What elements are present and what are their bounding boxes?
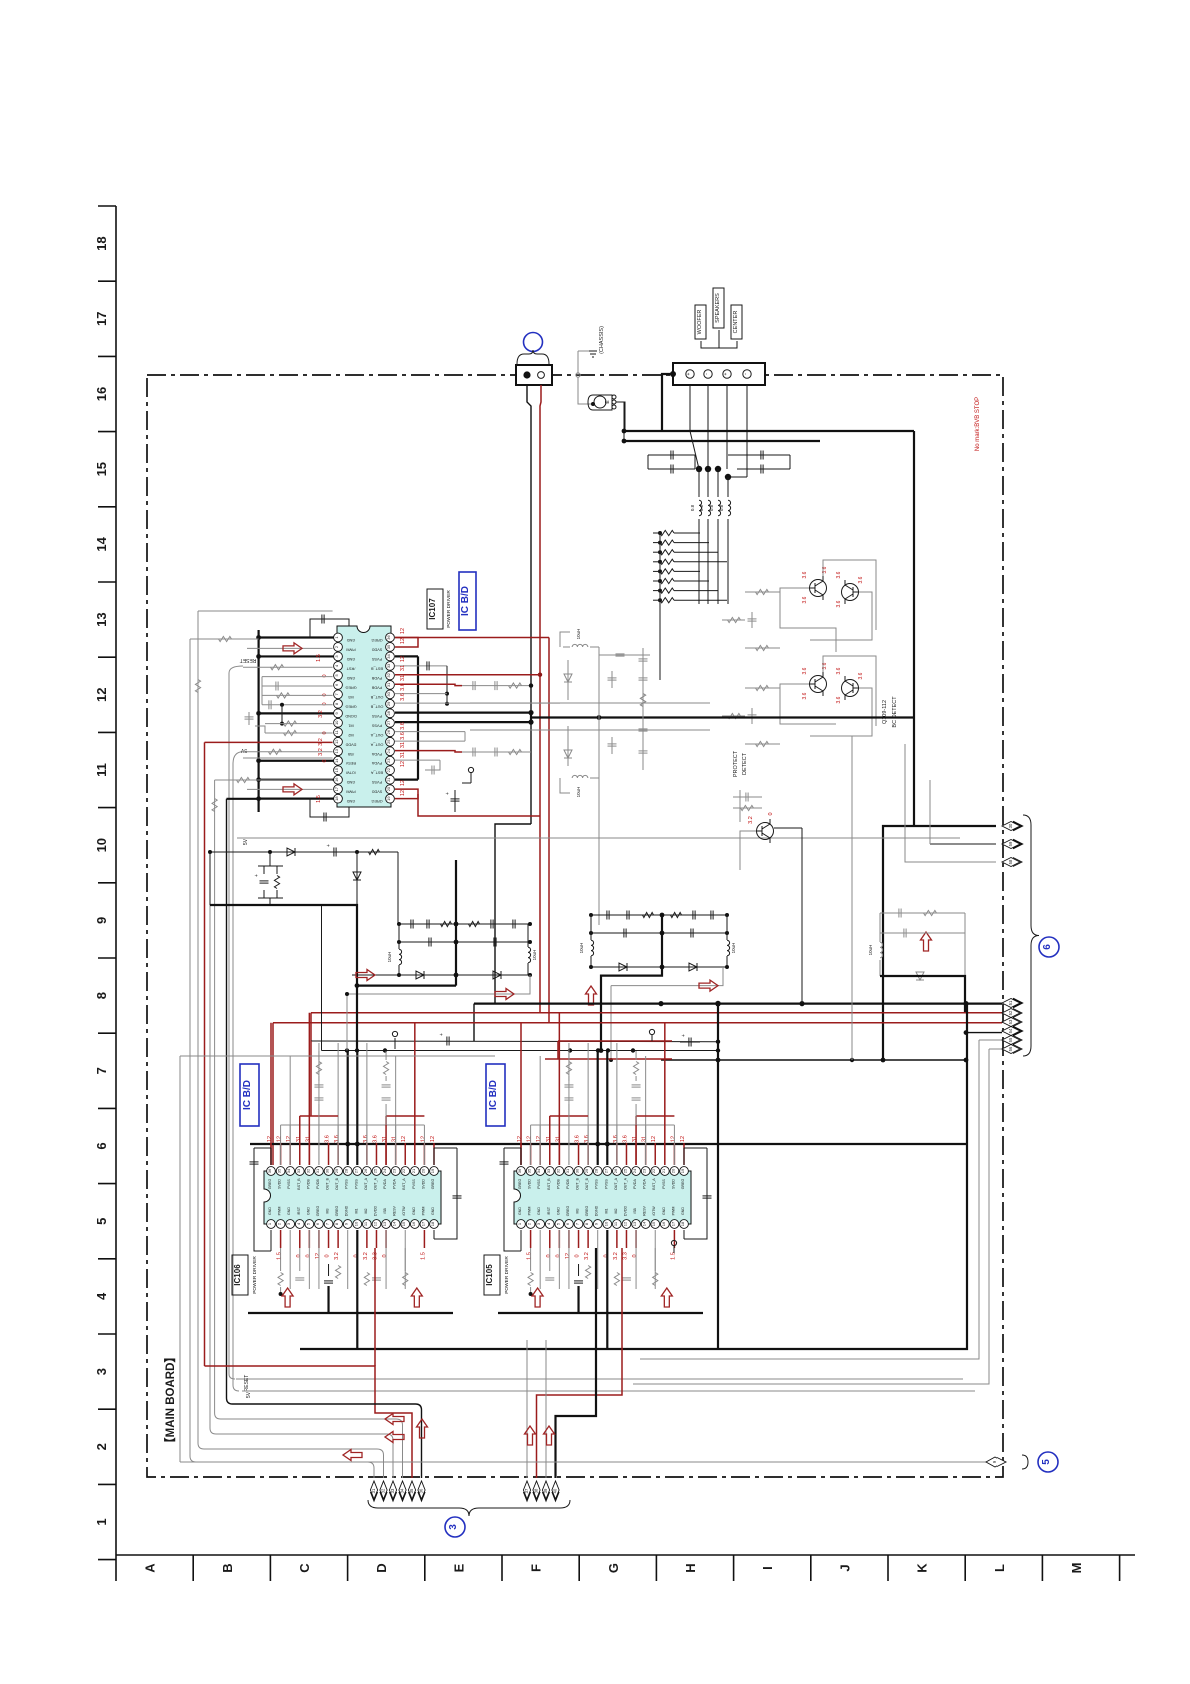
inductor network right of IC107 lower: [572, 775, 588, 778]
wire transistor block net 1: [780, 588, 836, 652]
IC107 right red wires pins 36 35: [395, 638, 418, 648]
red route IC106 to chevron35: [205, 1366, 413, 1478]
svg-text:10: 10: [353, 1221, 358, 1226]
svg-text:B: B: [220, 1563, 235, 1572]
wire pin16 res: [215, 779, 333, 781]
IC105 red top stubs: [520, 1143, 522, 1165]
svg-text:29: 29: [584, 1168, 589, 1173]
wire thick connector-left down: [662, 374, 673, 431]
IC107 label IC B/D blue: [459, 572, 476, 630]
circled 5: [1038, 1452, 1058, 1472]
svg-text:BST_A: BST_A: [402, 1178, 406, 1190]
svg-text:32: 32: [555, 1168, 560, 1173]
svg-text:1.5: 1.5: [420, 1252, 426, 1260]
svg-text:DGND: DGND: [345, 714, 356, 718]
svg-text:3.6: 3.6: [334, 1135, 340, 1143]
svg-text:36: 36: [386, 635, 391, 640]
svg-text:GND: GND: [347, 638, 356, 642]
svg-text:18: 18: [430, 1221, 435, 1226]
svg-text:0: 0: [632, 1254, 638, 1257]
svg-text:12: 12: [400, 638, 406, 644]
left gray verticals edge: [179, 1056, 181, 1462]
svg-text:59: 59: [1008, 841, 1013, 846]
svg-text:1.5: 1.5: [316, 654, 322, 662]
svg-text:PVSS: PVSS: [371, 714, 382, 718]
svg-text:30: 30: [325, 1168, 330, 1173]
wire red from connector pin: [540, 385, 541, 1013]
svg-text:24: 24: [632, 1168, 637, 1173]
wire thick pin34 corner: [395, 655, 418, 657]
wire column continuations IC106: [356, 986, 358, 1051]
svg-text:3.6: 3.6: [372, 1135, 378, 1143]
svg-text:3.2: 3.2: [613, 1252, 619, 1260]
svg-text:29: 29: [386, 701, 391, 706]
svg-text:13: 13: [632, 1221, 637, 1226]
svg-text:3.6: 3.6: [836, 600, 842, 607]
testpoint mid: [651, 1035, 653, 1041]
svg-text:14: 14: [334, 758, 339, 763]
svg-text:12: 12: [286, 1136, 292, 1142]
connector pins 31-36: [370, 1492, 377, 1501]
svg-text:DVDD: DVDD: [373, 1206, 377, 1217]
wire riser x321 from above: [321, 906, 323, 1051]
svg-text:55: 55: [1008, 1037, 1013, 1042]
svg-text:30: 30: [575, 1168, 580, 1173]
svg-text:24: 24: [382, 1168, 387, 1173]
brace under connector: [517, 350, 549, 364]
svg-text:H: H: [683, 1563, 698, 1572]
second block caps right: [880, 912, 965, 914]
IC106 thick verticals: [327, 1286, 329, 1313]
svg-text:31: 31: [386, 682, 391, 687]
svg-text:56: 56: [1008, 1046, 1013, 1051]
svg-text:10uH: 10uH: [868, 945, 873, 956]
wire pin10 11 network: [265, 723, 333, 725]
svg-text:18: 18: [94, 236, 109, 250]
svg-text:3.2: 3.2: [584, 1252, 590, 1260]
svg-text:31: 31: [392, 1136, 398, 1142]
svg-text:GREG: GREG: [335, 1206, 339, 1217]
IC107 gnd bus left: [258, 630, 260, 812]
svg-text:12: 12: [536, 1136, 542, 1142]
testpoint IC105 right: [673, 1246, 675, 1253]
svg-text:15: 15: [651, 1221, 656, 1226]
svg-text:DVDD: DVDD: [623, 1206, 627, 1217]
wire gray verticals right box: [640, 1040, 979, 1359]
label WOOFER: [695, 305, 706, 339]
mid network right caps row A: [591, 914, 727, 916]
svg-text:24: 24: [386, 748, 391, 753]
wire thick right step: [880, 976, 965, 1013]
svg-text:3.6: 3.6: [858, 576, 864, 583]
svg-text:+: +: [686, 372, 692, 375]
svg-text:0: 0: [382, 1254, 388, 1257]
chassis ground symbol: [577, 351, 579, 375]
IC105 red risers: [520, 1023, 522, 1165]
IC107 pins right 19-36: [386, 633, 395, 642]
svg-text:OUT_A: OUT_A: [373, 1177, 377, 1190]
IC105 label IC B/D blue: [486, 1064, 505, 1126]
svg-text:3.6: 3.6: [802, 596, 808, 603]
wire pins 30 29 gray: [395, 693, 447, 695]
svg-text:3.6: 3.6: [802, 692, 808, 699]
circled 3: [445, 1517, 465, 1537]
svg-text:12: 12: [315, 1253, 321, 1259]
IC106 power driver IC body: [264, 1171, 441, 1224]
svg-text:31: 31: [371, 1488, 376, 1493]
svg-text:OUT_B: OUT_B: [576, 1177, 580, 1190]
svg-text:/SB: /SB: [383, 1208, 387, 1214]
wire coils down: [698, 519, 700, 604]
svg-text:No mark:BVB STOP: No mark:BVB STOP: [975, 397, 981, 451]
svg-text:35: 35: [527, 1168, 532, 1173]
IC106 red top stubs: [270, 1143, 272, 1165]
svg-text:BST_B: BST_B: [297, 1178, 301, 1190]
connector pins right bottom: [1013, 999, 1022, 1008]
wire thick rail y1003: [474, 1002, 1002, 1004]
svg-text:PVDA: PVDA: [383, 1179, 387, 1189]
svg-text:PWM: PWM: [346, 647, 355, 651]
red verticals to bottom rails: [548, 638, 550, 1023]
svg-text:0.8: 0.8: [719, 504, 724, 511]
svg-text:0: 0: [555, 1254, 561, 1257]
IC106 bus tie vertical: [356, 1313, 358, 1349]
wire thick left step: [210, 905, 456, 986]
svg-text:31: 31: [296, 1136, 302, 1142]
connector pins right top: [1013, 822, 1022, 831]
svg-text:12: 12: [372, 1221, 377, 1226]
svg-text:RESV: RESV: [393, 1206, 397, 1216]
svg-text:0: 0: [546, 1254, 552, 1257]
svg-text:14: 14: [392, 1221, 397, 1226]
svg-text:0.8: 0.8: [709, 504, 714, 511]
svg-text:GREG: GREG: [431, 1179, 435, 1190]
svg-text:BC DETECT: BC DETECT: [892, 696, 898, 728]
svg-text:15: 15: [401, 1221, 406, 1226]
svg-text:3.6: 3.6: [622, 1135, 628, 1143]
svg-text:21: 21: [661, 1168, 666, 1173]
IC107 power driver IC body: [337, 626, 391, 807]
svg-text:22: 22: [651, 1168, 656, 1173]
svg-text:GND: GND: [347, 657, 356, 661]
svg-text:PVDA: PVDA: [371, 752, 382, 756]
svg-text:M1: M1: [604, 1209, 608, 1214]
svg-text:GREG: GREG: [371, 799, 382, 803]
svg-text:PVDB: PVDB: [566, 1179, 570, 1189]
wire thick bus horizontals: [624, 430, 914, 432]
svg-text:5V: 5V: [246, 1391, 252, 1398]
svg-text:34: 34: [536, 1168, 541, 1173]
svg-text:3.6: 3.6: [802, 571, 808, 578]
IC106 bottom bus: [248, 1312, 453, 1314]
svg-text:GND: GND: [681, 1207, 685, 1215]
svg-text:10: 10: [94, 838, 109, 852]
svg-text:0: 0: [305, 1254, 311, 1257]
svg-text:POWER DRIVER: POWER DRIVER: [252, 1256, 258, 1294]
svg-text:3.6: 3.6: [400, 722, 406, 730]
svg-text:13: 13: [94, 612, 109, 626]
mid network right caps row B: [591, 932, 727, 934]
label SPEAKERS: [713, 288, 724, 328]
svg-text:12: 12: [400, 780, 406, 786]
mid network left diode row: [352, 974, 530, 976]
black route IC105 to chevron40: [556, 1248, 597, 1478]
wire q protect: [774, 827, 802, 829]
svg-text:PVDB: PVDB: [556, 1179, 560, 1189]
svg-text:DGND: DGND: [345, 1205, 349, 1216]
svg-text:28: 28: [344, 1168, 349, 1173]
svg-text:DETECT: DETECT: [742, 752, 748, 775]
svg-text:RESV: RESV: [643, 1206, 647, 1216]
svg-text:PVDA: PVDA: [371, 761, 382, 765]
svg-text:3.2: 3.2: [334, 1252, 340, 1260]
svg-text:L: L: [992, 1564, 1007, 1572]
svg-text:39: 39: [543, 1488, 548, 1493]
main board outline dash-dot border: [147, 375, 1003, 1477]
svg-text:3.2: 3.2: [318, 710, 324, 718]
svg-text:GND: GND: [268, 1207, 272, 1215]
IC105 bus tie vertical: [606, 1313, 608, 1349]
svg-text:12: 12: [400, 761, 406, 767]
wire rail 1003 left corner: [473, 1004, 475, 1041]
svg-text:3.6: 3.6: [584, 1135, 590, 1143]
svg-text:M1: M1: [348, 723, 353, 727]
wire pin32 red to rail: [395, 674, 540, 676]
brace bottom connector: [368, 1500, 570, 1516]
svg-text:GREG: GREG: [681, 1179, 685, 1190]
mid network left caps row A: [399, 923, 530, 925]
svg-text:3.2: 3.2: [748, 816, 754, 824]
svg-text:12: 12: [565, 1253, 571, 1259]
svg-text:GND: GND: [412, 1207, 416, 1215]
svg-text:20: 20: [420, 1168, 425, 1173]
wire red rail y1012: [311, 1012, 1002, 1014]
IC106 bottom components: [278, 1273, 283, 1286]
svg-text:PWM: PWM: [421, 1207, 425, 1216]
electrolytic cap mid: [680, 1041, 700, 1043]
svg-text:SVDD: SVDD: [671, 1179, 675, 1189]
IC106 bypass right: [434, 1156, 457, 1239]
svg-text:GND: GND: [556, 1207, 560, 1215]
ruler bottom ticks: [115, 1555, 117, 1581]
svg-text:0.8: 0.8: [699, 504, 704, 511]
svg-text:PVSS: PVSS: [354, 1179, 358, 1189]
svg-text:/OTW: /OTW: [652, 1206, 656, 1216]
svg-text:OUT_B: OUT_B: [370, 704, 383, 708]
svg-text:26: 26: [363, 1168, 368, 1173]
svg-text:4: 4: [94, 1292, 109, 1300]
svg-text:16: 16: [411, 1221, 416, 1226]
svg-text:25: 25: [622, 1168, 627, 1173]
IC106 label box: [232, 1255, 248, 1295]
svg-text:3.6: 3.6: [325, 1135, 331, 1143]
arrows red mid: [356, 970, 375, 981]
svg-text:IC B/D: IC B/D: [460, 586, 471, 616]
svg-text:K: K: [915, 1563, 930, 1573]
svg-text:26: 26: [386, 729, 391, 734]
IC105 top black bus: [595, 1142, 600, 1147]
svg-text:20: 20: [670, 1168, 675, 1173]
svg-text:BST_B: BST_B: [371, 666, 383, 670]
svg-text:27: 27: [353, 1168, 358, 1173]
svg-text:30: 30: [1008, 823, 1013, 828]
IC105 bottom bus: [498, 1312, 703, 1314]
IC106 red risers: [270, 1023, 272, 1165]
circled 6: [1039, 937, 1059, 957]
svg-text:WOOFER: WOOFER: [697, 310, 703, 335]
svg-text:31: 31: [315, 1168, 320, 1173]
svg-text:31: 31: [555, 1136, 561, 1142]
wire pin8-10 tie: [281, 705, 283, 724]
svg-text:12: 12: [527, 1136, 533, 1142]
connector 2-pin box: [516, 365, 552, 385]
svg-text:18: 18: [680, 1221, 685, 1226]
svg-text:DVDD: DVDD: [345, 742, 356, 746]
svg-text:SVDD: SVDD: [278, 1179, 282, 1189]
svg-text:OUT_A: OUT_A: [623, 1177, 627, 1190]
svg-text:16: 16: [94, 387, 109, 401]
svg-text:19: 19: [430, 1168, 435, 1173]
mid network left caps row B: [399, 941, 530, 943]
wire network below IC107 row1: [210, 851, 398, 853]
svg-text:+: +: [723, 372, 729, 375]
svg-text:10uH: 10uH: [576, 787, 581, 798]
svg-text:38: 38: [534, 1488, 539, 1493]
svg-text:/RST: /RST: [547, 1206, 551, 1215]
IC107 bottom bypass cap: [310, 798, 349, 817]
svg-text:3.6: 3.6: [400, 693, 406, 701]
svg-text:0: 0: [296, 1254, 302, 1257]
svg-text:5V: 5V: [243, 838, 249, 845]
svg-text:3.6: 3.6: [613, 1135, 619, 1143]
wire speaker pins down: [689, 385, 691, 431]
wire thick pin28 27 buses: [395, 711, 531, 713]
IC105 top caps network: [566, 1062, 571, 1075]
svg-text:12: 12: [517, 1136, 523, 1142]
wire bus y1349: [300, 1348, 718, 1350]
IC106 bypass left: [254, 1148, 271, 1251]
svg-text:35: 35: [386, 644, 391, 649]
svg-text:PROTECT: PROTECT: [733, 750, 739, 777]
page border ruler left line: [115, 206, 117, 1555]
fan motor M: [588, 395, 612, 410]
svg-text:40: 40: [553, 1488, 558, 1493]
svg-text:I: I: [760, 1566, 775, 1570]
mid network left inductors 10uH: [399, 949, 402, 965]
svg-text:31: 31: [400, 742, 406, 748]
svg-text:IC105: IC105: [485, 1264, 494, 1286]
svg-text:33: 33: [296, 1168, 301, 1173]
svg-text:OUT_A: OUT_A: [364, 1177, 368, 1190]
testpoint circle: [470, 772, 472, 783]
svg-text:SVDD: SVDD: [421, 1179, 425, 1189]
svg-text:10uH: 10uH: [387, 952, 392, 963]
svg-text:12: 12: [277, 1136, 283, 1142]
svg-text:7: 7: [94, 1067, 109, 1074]
svg-text:GND: GND: [347, 676, 356, 680]
svg-text:BST_A: BST_A: [652, 1178, 656, 1190]
red riser 311 to IC106 red rail: [310, 1041, 312, 1116]
svg-text:11: 11: [94, 763, 109, 777]
wire pin24 red caps row: [395, 751, 462, 752]
gray verticals long left bundle: [209, 852, 211, 1428]
red arrows bottom left: [385, 1414, 404, 1425]
svg-text:+: +: [254, 874, 260, 877]
wire gray drop to chevron3: [905, 744, 996, 862]
transistor Q111: [810, 676, 827, 693]
svg-text:12: 12: [401, 1136, 407, 1142]
svg-text:23: 23: [642, 1168, 647, 1173]
svg-text:5: 5: [94, 1218, 109, 1225]
svg-text:F: F: [529, 1564, 544, 1572]
svg-text:3: 3: [448, 1524, 459, 1530]
svg-text:PVDA: PVDA: [633, 1179, 637, 1189]
svg-text:26: 26: [613, 1168, 618, 1173]
IC106 red up arrows below: [282, 1288, 293, 1307]
wire pin31 red caps row: [395, 684, 462, 685]
svg-text:PVSS: PVSS: [537, 1179, 541, 1189]
svg-text:6: 6: [94, 1142, 109, 1149]
wire pin23 22 caps: [395, 759, 440, 761]
IC105 thick verticals: [577, 1286, 579, 1313]
wire speaker brace: [701, 341, 719, 348]
IC105 pins bottom: [517, 1220, 526, 1229]
svg-text:OUT_B: OUT_B: [585, 1177, 589, 1190]
svg-text:31: 31: [632, 1136, 638, 1142]
svg-text:33: 33: [390, 1488, 395, 1493]
svg-text:GREG: GREG: [371, 638, 382, 642]
svg-text:CENTER: CENTER: [733, 311, 739, 334]
brace 5: [1022, 1455, 1028, 1469]
svg-text:12: 12: [400, 656, 406, 662]
svg-text:33: 33: [386, 663, 391, 668]
junction dots: [696, 466, 702, 472]
svg-text:15: 15: [94, 462, 109, 476]
wire pin17 gray arrow: [247, 788, 333, 790]
svg-text:22: 22: [386, 767, 391, 772]
brace right connector: [1023, 815, 1039, 1056]
wire thick right step: [601, 967, 662, 1051]
svg-text:SVDD: SVDD: [528, 1179, 532, 1189]
cap+res left stub: [258, 865, 283, 867]
wire motor to bus: [616, 402, 625, 431]
svg-text:GND: GND: [306, 1207, 310, 1215]
wire pin26 25 gray: [395, 731, 465, 733]
testpoint over IC106: [394, 1038, 396, 1049]
svg-text:33: 33: [546, 1168, 551, 1173]
svg-text:SPEAKERS: SPEAKERS: [715, 293, 721, 323]
svg-text:M3: M3: [348, 695, 353, 699]
IC107 pins left 1-18: [334, 633, 343, 642]
svg-text:+: +: [326, 844, 332, 847]
connector pins 37-40: [523, 1492, 530, 1501]
svg-text:29: 29: [334, 1168, 339, 1173]
mid network right diode row: [591, 966, 727, 968]
svg-text:12: 12: [430, 1136, 436, 1142]
svg-text:17: 17: [420, 1221, 425, 1226]
IC106 top caps network: [316, 1062, 321, 1075]
svg-text:10uH: 10uH: [532, 950, 537, 961]
svg-text:3.6: 3.6: [836, 571, 842, 578]
svg-text:M: M: [1069, 1563, 1084, 1574]
mid network right inductors 10uH: [591, 940, 594, 956]
svg-text:GREG: GREG: [345, 704, 356, 708]
svg-text:M2: M2: [614, 1209, 618, 1214]
svg-text:3.6: 3.6: [400, 683, 406, 691]
svg-text:22: 22: [401, 1168, 406, 1173]
svg-text:SVDD: SVDD: [371, 790, 382, 794]
mid network right gray row: [611, 967, 723, 986]
